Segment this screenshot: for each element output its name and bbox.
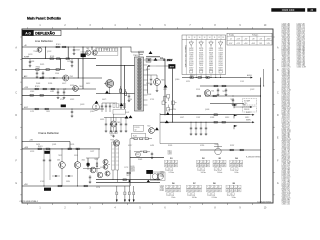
wire bus under table 4	[210, 103, 244, 105]
driver transformer T7601	[112, 142, 115, 170]
svg-text:F5131: F5131	[196, 89, 200, 91]
junction square bottom	[129, 180, 131, 182]
svg-text:G: G	[277, 183, 279, 185]
svg-text:R4608: R4608	[36, 83, 40, 85]
transistor Q4504	[97, 172, 103, 178]
wire vertical V5	[67, 47, 69, 59]
svg-text:D3824: D3824	[218, 57, 222, 59]
wire out stage	[83, 168, 100, 170]
diode D7612	[148, 65, 150, 67]
capacitor C4501	[43, 157, 45, 160]
svg-text:S5786: S5786	[200, 145, 204, 147]
wire vertical fbt right	[147, 66, 149, 94]
svg-text:Q5049: Q5049	[100, 167, 105, 169]
resistor R4507	[58, 185, 61, 187]
warning triangle S-cap	[125, 116, 129, 119]
svg-text:W1: W1	[170, 158, 173, 160]
connector pin arrow P1	[116, 186, 118, 192]
svg-text:R7621: R7621	[35, 86, 40, 88]
wire bottom bus F2	[96, 181, 160, 183]
svg-text:Q3098: Q3098	[209, 57, 214, 59]
svg-text:F6131: F6131	[74, 155, 78, 157]
diode modulator bridge D7623	[172, 101, 175, 105]
svg-text:C3683: C3683	[218, 59, 222, 61]
svg-text:R7395: R7395	[218, 48, 222, 50]
svg-text:T6275: T6275	[126, 175, 130, 177]
svg-text:7604: 7604	[79, 86, 83, 88]
svg-text:T3911: T3911	[199, 65, 203, 67]
dark bar FBT top	[146, 56, 160, 58]
svg-text:5V/div: 5V/div	[232, 197, 236, 199]
block label A-D DEFLEXAO	[22, 30, 61, 35]
wire vertical q2 riser b	[172, 66, 174, 122]
capacitor C7651	[217, 88, 219, 90]
svg-text:7710: 7710	[244, 103, 247, 105]
svg-text:T7605: T7605	[214, 144, 218, 146]
flyback transformer T7603	[135, 57, 144, 111]
connector strip H-drive pins	[97, 48, 99, 51]
coil L7601 black body	[81, 54, 86, 58]
warning triangle FBT top	[149, 51, 153, 54]
capacitor C7633	[109, 103, 111, 106]
wire center bus E	[130, 156, 164, 158]
svg-text:D4827: D4827	[189, 65, 193, 67]
resistor R7655	[222, 85, 225, 87]
svg-text:Q7230: Q7230	[189, 61, 194, 63]
svg-text:C4811 4-D4: C4811 4-D4	[282, 204, 290, 206]
svg-text:7606: 7606	[161, 80, 165, 82]
svg-text:R5747: R5747	[218, 61, 222, 63]
svg-text:R6925: R6925	[40, 64, 44, 66]
wire bottom bus F1	[96, 179, 160, 181]
wire left bus row C	[22, 88, 96, 90]
warning triangle frame out	[146, 180, 150, 183]
svg-text:R7614: R7614	[36, 67, 41, 69]
svg-text:E-13904/37 W9905: E-13904/37 W9905	[258, 202, 272, 204]
svg-text:W3: W3	[218, 158, 221, 160]
svg-text:C3978: C3978	[189, 52, 193, 54]
junction dots frame	[62, 148, 63, 149]
svg-text:0.2V/div: 0.2V/div	[169, 172, 175, 174]
warning triangle yoke	[95, 101, 99, 104]
enclosure corner EW block	[159, 113, 161, 144]
svg-text:G: G	[15, 183, 17, 185]
wire bus 3	[22, 69, 65, 71]
svg-text:F3383 10-B1: F3383 10-B1	[282, 67, 291, 69]
wire r768x link	[130, 138, 134, 140]
resistor R7616	[56, 69, 59, 71]
wire vertical q2 riser a	[164, 59, 166, 115]
wire q7605	[113, 114, 115, 121]
resistor R7625	[40, 95, 43, 97]
svg-text:+12V: +12V	[236, 43, 240, 45]
svg-text:+45V: +45V	[244, 43, 248, 45]
junction dots row C	[58, 89, 59, 90]
svg-text:S4786: S4786	[219, 65, 223, 67]
capacitor C7691	[151, 152, 153, 154]
svg-text:+15V: +15V	[236, 39, 240, 41]
svg-text:W9: W9	[232, 183, 235, 185]
resistor R7621	[35, 88, 38, 90]
resistor R4512	[127, 172, 130, 174]
svg-text:C4977: C4977	[90, 151, 94, 153]
svg-text:S6009: S6009	[199, 63, 203, 65]
svg-text:R6776: R6776	[199, 48, 203, 50]
svg-text:C4276: C4276	[67, 61, 71, 63]
svg-text:+5V: +5V	[259, 39, 262, 41]
svg-text:-15V: -15V	[244, 39, 247, 41]
svg-text:S6269: S6269	[100, 119, 104, 121]
svg-text:V-RTN: V-RTN	[246, 120, 250, 122]
svg-text:L6483: L6483	[50, 91, 54, 93]
svg-text:T7501: T7501	[104, 49, 108, 51]
svg-text:A-D: A-D	[25, 31, 31, 35]
wire vertical V1	[82, 47, 84, 89]
coil L4502 black body	[146, 170, 153, 174]
capacitor C7663	[115, 118, 117, 125]
transistor Q4502	[74, 162, 81, 169]
svg-text:2V/div: 2V/div	[234, 172, 238, 174]
dashed option box	[243, 99, 257, 106]
svg-text:Q3435: Q3435	[199, 54, 204, 56]
resistor R7654	[214, 85, 217, 87]
capacitor C7631	[101, 103, 103, 106]
bridge wires	[167, 98, 169, 101]
wire yoke bus	[22, 108, 104, 110]
svg-text:Supply: Supply	[229, 35, 234, 37]
transistor Q4501	[59, 162, 66, 169]
svg-text:S2823: S2823	[70, 99, 74, 101]
resistor R4504	[76, 148, 79, 150]
svg-text:20V/div: 20V/div	[217, 172, 222, 174]
svg-text:L7601: L7601	[81, 52, 85, 54]
svg-text:L6458: L6458	[150, 145, 154, 147]
svg-text:H-FLB: H-FLB	[247, 75, 252, 77]
svg-text:C5835 10-E9: C5835 10-E9	[297, 67, 306, 69]
svg-text:Main Panel: Deflexão: Main Panel: Deflexão	[27, 17, 61, 21]
svg-text:Q5681: Q5681	[52, 144, 57, 146]
svg-text:R3937: R3937	[230, 145, 234, 147]
diode D7611	[148, 59, 150, 61]
svg-text:EHT: EHT	[160, 58, 163, 60]
wire HOT emitter ground	[156, 85, 158, 89]
wire bus under table 1	[182, 77, 246, 79]
svg-text:S4836: S4836	[209, 67, 213, 69]
svg-text:S3148: S3148	[147, 94, 151, 96]
resistor R4506	[96, 163, 98, 166]
svg-text:F7367: F7367	[209, 61, 213, 63]
wire vertical V3	[124, 65, 126, 109]
svg-text:C3687: C3687	[218, 54, 222, 56]
resistor R7681	[134, 138, 137, 140]
resistor R7624	[30, 95, 33, 97]
flag marker F2	[233, 114, 235, 118]
diode D4502	[68, 175, 70, 177]
svg-text:7605: 7605	[117, 122, 121, 124]
flag marker F1	[233, 104, 235, 108]
warning triangle mid2	[155, 127, 159, 130]
header page number box	[307, 8, 316, 12]
junction node A1	[45, 47, 46, 48]
svg-text:F3164: F3164	[55, 73, 59, 75]
svg-text:DEFLEXÃO: DEFLEXÃO	[35, 31, 55, 36]
wire mid-right bus D2	[160, 121, 250, 123]
coil L4503 black body	[87, 163, 90, 166]
svg-text:C4103: C4103	[218, 50, 222, 52]
svg-text:Q5800: Q5800	[175, 79, 180, 81]
warning triangle HOT	[164, 85, 168, 88]
capacitor C7611	[29, 59, 31, 62]
transistor Q4503	[90, 167, 96, 173]
svg-text:E-13904/37 W9905: E-13904/37 W9905	[246, 157, 261, 159]
svg-text:T3257: T3257	[222, 91, 226, 93]
capacitor C7653	[232, 98, 234, 100]
resistor R7626	[35, 108, 38, 110]
svg-text:16: 16	[199, 37, 201, 39]
svg-text:15: 15	[222, 37, 224, 39]
svg-text:W7: W7	[193, 183, 196, 185]
svg-text:W2: W2	[202, 158, 205, 160]
wire frame right link	[86, 157, 99, 159]
resistor R7622	[43, 88, 46, 90]
wire vertical right riser	[260, 78, 262, 151]
resistor R7741	[214, 121, 217, 123]
svg-text:L4760: L4760	[172, 109, 176, 111]
resistor R7651	[190, 77, 193, 79]
svg-text:+190V: +190V	[266, 39, 270, 41]
resistor R7742	[222, 121, 225, 123]
warning triangle yoke2	[120, 103, 124, 106]
transistor Q7606 HOT	[154, 79, 161, 86]
wire flag1 stub	[234, 106, 240, 108]
wire frame bus	[22, 148, 100, 150]
svg-text:R4297: R4297	[218, 67, 222, 69]
resistor R7601	[56, 46, 59, 48]
transistor Q7612	[149, 128, 155, 134]
svg-text:R7611: R7611	[50, 56, 54, 58]
warning triangle damper	[105, 91, 109, 94]
svg-text:T3380: T3380	[189, 54, 193, 56]
wire vertical V8	[91, 47, 93, 50]
wire damper links	[109, 87, 111, 94]
capacitor C7743	[200, 122, 202, 128]
svg-text:10V/div: 10V/div	[192, 197, 197, 199]
ground q7605	[113, 135, 115, 136]
capacitor C7661	[105, 118, 107, 125]
transistor Q7605a damper	[106, 80, 114, 88]
svg-text:S3618: S3618	[225, 117, 229, 119]
capacitor C7744	[205, 122, 207, 128]
off-page arrow V-RTN	[250, 121, 252, 123]
capacitor C7621	[57, 89, 59, 92]
transistor Q7605	[111, 121, 117, 127]
warning triangle cap row	[129, 115, 133, 118]
svg-text:D6367: D6367	[189, 59, 193, 61]
resistor R7623	[51, 88, 54, 90]
resistor R7612	[57, 58, 60, 60]
svg-text:7611: 7611	[211, 91, 214, 93]
resistor R7602	[63, 46, 66, 48]
capacitor C7641 resonance	[150, 75, 152, 78]
capacitor C7613	[36, 71, 38, 73]
svg-text:S3217: S3217	[128, 145, 132, 147]
svg-text:F6459: F6459	[36, 144, 40, 146]
svg-text:7601: 7601	[86, 48, 90, 50]
svg-text:V-OUT: V-OUT	[246, 112, 251, 114]
svg-text:L3970: L3970	[189, 57, 193, 59]
svg-text:4502: 4502	[82, 160, 86, 162]
wire bus 2	[22, 58, 96, 60]
svg-text:T6560: T6560	[230, 99, 234, 101]
diode modulator bridge D7621	[167, 95, 170, 99]
svg-text:T7603: T7603	[133, 55, 138, 57]
svg-text:50V/div: 50V/div	[201, 172, 206, 174]
svg-text:F2758: F2758	[96, 187, 100, 189]
wire short riser right	[263, 69, 265, 86]
Q7605 leg pins	[110, 126, 112, 131]
transistor Q4506	[103, 159, 108, 164]
wire vertical center drop	[129, 150, 131, 186]
wire bottom bus G	[22, 185, 130, 187]
wire FBT top lead	[138, 52, 140, 57]
resistor R7653	[206, 77, 209, 79]
transistor Q4505	[105, 171, 110, 176]
diode modulator bridge D7624	[167, 108, 170, 112]
warning triangle EHT	[154, 58, 158, 61]
svg-text:S4679: S4679	[102, 99, 106, 101]
wire +B bus top	[22, 46, 131, 48]
wire cap row top	[104, 117, 128, 119]
box around T4501	[151, 172, 166, 181]
svg-text:S7265: S7265	[219, 63, 223, 65]
svg-text:C7603: C7603	[75, 50, 80, 52]
junction dots under table	[207, 77, 208, 78]
svg-text:CM23 GSIII: CM23 GSIII	[282, 9, 295, 12]
svg-text:+80V: +80V	[251, 43, 255, 45]
wire mid-right bus D	[160, 114, 250, 116]
dashed option box 2	[243, 107, 257, 112]
capacitor C7662	[110, 118, 112, 125]
svg-text:L7011: L7011	[209, 54, 213, 56]
resistor R4501	[38, 148, 41, 150]
junction dots bus D	[165, 114, 166, 115]
ground C7611	[29, 65, 31, 66]
svg-text:12: 12	[194, 37, 196, 39]
connector pin arrow P3	[128, 186, 130, 192]
wire bus under table 3	[205, 95, 261, 97]
svg-text:L5759: L5759	[30, 111, 34, 113]
connector pin arrow P2	[124, 186, 126, 192]
warning triangle EW	[166, 112, 170, 115]
svg-text:D7311: D7311	[150, 99, 154, 101]
svg-text:R3836: R3836	[48, 83, 52, 85]
transistor Q7601	[86, 50, 91, 55]
capacitor C4502	[49, 157, 51, 160]
snubber block gray	[146, 58, 151, 62]
svg-text:EHT: EHT	[170, 67, 175, 69]
off-page arrow EW	[240, 106, 248, 108]
svg-text:Q5698: Q5698	[131, 171, 135, 173]
svg-text:Q4289: Q4289	[189, 50, 194, 52]
svg-text:L7196: L7196	[128, 99, 132, 101]
svg-text:G2: G2	[135, 129, 137, 131]
table supply voltages	[227, 33, 272, 45]
wire q2 riser b stub	[156, 65, 173, 67]
wire bus under table 2	[200, 85, 261, 87]
svg-text:14: 14	[209, 37, 211, 39]
svg-text:S3241: S3241	[199, 57, 203, 59]
svg-text:S4572: S4572	[62, 83, 66, 85]
resistor R4503	[68, 148, 71, 150]
svg-text:+B: +B	[230, 39, 232, 41]
capacitor C7652	[225, 88, 227, 90]
svg-text:T3223: T3223	[110, 135, 114, 137]
transistor Q7602	[92, 50, 97, 55]
svg-text:12: 12	[204, 37, 206, 39]
svg-text:S5228: S5228	[30, 151, 34, 153]
svg-text:F4314: F4314	[66, 181, 70, 183]
svg-text:CM23 GSIII 02986-1: CM23 GSIII 02986-1	[20, 201, 39, 203]
transistor Q7603a	[37, 47, 42, 52]
svg-text:L5543: L5543	[146, 83, 150, 85]
wire vertical V7	[77, 59, 79, 78]
svg-text:24V: 24V	[259, 43, 262, 45]
diode modulator bridge D7622	[162, 101, 165, 105]
svg-text:T6922: T6922	[58, 155, 62, 157]
svg-text:R7651: R7651	[190, 75, 195, 77]
svg-text:T7346: T7346	[33, 51, 37, 53]
capacitor C7665	[125, 118, 127, 125]
border frame	[22, 29, 273, 203]
capacitor C7603	[73, 47, 75, 50]
svg-text:D3698: D3698	[210, 117, 214, 119]
wire left bus row C2	[22, 94, 80, 96]
svg-text:R7601: R7601	[56, 44, 61, 46]
wire T7601 bottom leads	[112, 170, 114, 180]
svg-text:S7524: S7524	[60, 99, 64, 101]
svg-text:Q6913: Q6913	[28, 54, 33, 56]
header bar CM23 GSIII	[271, 8, 305, 12]
resistor R7636	[120, 89, 122, 92]
svg-text:R6845: R6845	[138, 159, 142, 161]
svg-text:L4648: L4648	[199, 50, 203, 52]
wire HOT collector	[148, 74, 158, 76]
svg-text:7612: 7612	[147, 126, 151, 128]
wire vertical V2	[120, 47, 122, 109]
resistor R7656	[197, 95, 200, 97]
resistor R7611	[50, 58, 53, 60]
svg-text:6.3V: 6.3V	[229, 43, 232, 45]
box below FBT	[134, 125, 144, 131]
wire bus 4	[22, 77, 102, 79]
svg-text:T3946: T3946	[94, 159, 98, 161]
svg-text:+8V: +8V	[252, 39, 255, 41]
flag marker F3	[233, 125, 235, 129]
svg-text:Q4846: Q4846	[205, 109, 210, 111]
warning triangle mid1	[165, 120, 169, 123]
wire vertical right lower	[260, 150, 262, 203]
transformer T4501	[152, 174, 158, 180]
wire vertical V4	[45, 47, 47, 59]
resistor R7614	[36, 69, 39, 71]
svg-text:D3371: D3371	[209, 59, 213, 61]
resistor R4502	[46, 148, 49, 150]
svg-text:12: 12	[218, 37, 220, 39]
svg-text:R3435: R3435	[168, 145, 172, 147]
svg-text:S2526: S2526	[135, 154, 139, 156]
capacitor C7742	[195, 122, 197, 128]
wire frame feeder	[28, 141, 70, 143]
